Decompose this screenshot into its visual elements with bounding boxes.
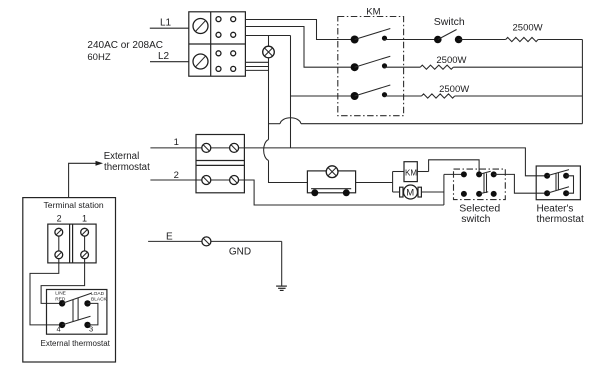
wire row2 to right bus <box>453 66 582 68</box>
wire 1 input <box>150 147 206 149</box>
wire branch C vertical down to node <box>290 36 292 149</box>
svg-text:2500W: 2500W <box>439 84 469 95</box>
label 2500W row1 <box>513 23 543 34</box>
wire coil to selected switch feed <box>429 160 480 175</box>
lamp block box <box>307 171 355 193</box>
wire L2 rail lower segment <box>269 161 308 183</box>
label station 1 <box>82 214 87 224</box>
svg-text:switch: switch <box>461 213 490 225</box>
label LINE RED <box>55 291 66 303</box>
arrow to External thermostat label <box>69 161 103 198</box>
label L1 <box>160 18 172 29</box>
svg-text:2: 2 <box>174 170 179 181</box>
wire L2 input <box>150 61 189 63</box>
svg-text:LINE: LINE <box>55 291 66 297</box>
wire L1 branch C horizontal <box>245 35 290 37</box>
svg-text:1: 1 <box>174 137 179 148</box>
label Switch <box>434 16 465 28</box>
label GND <box>229 247 251 258</box>
wire lamp vertical L2 rail <box>268 58 270 140</box>
wire E ground line <box>148 240 282 242</box>
wire bundle L2 to lamp line <box>245 62 268 70</box>
label 240AC or 208AC 60HZ <box>87 40 163 63</box>
KM contact row2 <box>351 56 421 71</box>
external thermostat switch box <box>47 290 107 335</box>
power terminal block TB1 <box>189 12 246 76</box>
station screws column 2 <box>55 228 63 258</box>
KM contact row1 <box>351 29 438 44</box>
selected switch box <box>454 169 506 200</box>
motor M1 <box>393 185 444 199</box>
label wire 1 <box>174 137 179 148</box>
label 2500W row2 <box>436 55 466 66</box>
label 2500W row3 <box>439 84 469 95</box>
wire row2 down to bottom control line <box>239 180 444 205</box>
lamp DS2 <box>326 166 338 178</box>
thermostat terminal block TB2 <box>196 135 244 193</box>
screw terminal L1 <box>193 19 208 34</box>
svg-text:thermostat: thermostat <box>104 162 150 173</box>
label pin 3 <box>89 325 93 334</box>
svg-text:L1: L1 <box>160 18 172 29</box>
wire station col2 to thermostat pin4 <box>30 259 62 325</box>
svg-text:4: 4 <box>57 325 61 334</box>
svg-text:M: M <box>406 188 414 199</box>
svg-text:1: 1 <box>82 214 87 224</box>
label station 2 <box>57 214 62 224</box>
svg-text:2500W: 2500W <box>513 23 543 34</box>
wire heater return left segment <box>301 123 582 125</box>
indicator lamp DS1 <box>263 36 275 58</box>
label pin 4 <box>57 325 61 334</box>
svg-text:60HZ: 60HZ <box>87 52 110 63</box>
label Selected switch <box>459 202 500 225</box>
svg-text:2: 2 <box>57 214 62 224</box>
svg-text:Terminal station: Terminal station <box>44 200 104 210</box>
TB2 row2 screws <box>202 176 239 185</box>
wire hop over branch C <box>280 118 301 124</box>
ground symbol <box>276 286 287 290</box>
svg-text:External: External <box>104 151 140 162</box>
wire station col1 to thermostat line pin <box>41 259 85 304</box>
screw terminal E <box>202 237 211 246</box>
KM contact row3 <box>351 85 422 100</box>
switch S1 <box>434 30 506 44</box>
resistor heater row3 2500W <box>422 94 455 98</box>
label wire 2 <box>174 170 179 181</box>
svg-text:LOAD: LOAD <box>91 291 105 297</box>
heater thermostat contacts <box>544 170 573 197</box>
node coil branch vertical <box>392 172 394 193</box>
screw terminal L2 <box>193 54 208 69</box>
contact bar in lamp block <box>311 189 351 197</box>
wire L1 to KM contact row2 <box>245 27 354 68</box>
wire heater return to L2 rail <box>269 123 281 125</box>
label External thermostat pointer text <box>104 151 150 173</box>
svg-text:Switch: Switch <box>434 16 465 28</box>
resistor heater row1 2500W <box>506 37 538 41</box>
wire L1 to KM contact row1 <box>245 20 354 40</box>
svg-text:thermostat: thermostat <box>537 214 584 225</box>
wire right bus vertical <box>581 40 583 124</box>
wire 2 input <box>150 179 206 181</box>
contactor KM box <box>338 17 404 116</box>
svg-text:L2: L2 <box>158 51 170 62</box>
external thermostat contacts <box>59 293 98 328</box>
wire lamp block to coil node <box>356 182 393 184</box>
wire L1 input <box>150 27 189 29</box>
svg-text:KM: KM <box>366 7 380 18</box>
resistor heater row2 2500W <box>420 65 453 69</box>
wire hop over thermostat line <box>264 140 269 161</box>
wire bottom line up to selected switch <box>444 174 464 205</box>
terminal pin holes L2 section <box>216 51 236 72</box>
wire row3 to right bus <box>455 95 583 97</box>
svg-text:KM: KM <box>405 168 417 177</box>
svg-text:GND: GND <box>229 247 251 258</box>
wire row1 to right bus <box>538 39 582 41</box>
station screws column 1 <box>81 228 89 258</box>
TB2 row1 screws <box>202 143 239 152</box>
wire branch to KM contact row3 <box>291 95 355 97</box>
label Heaters thermostat <box>537 203 584 225</box>
terminal pin holes L1 section <box>216 17 236 38</box>
svg-text:3: 3 <box>89 325 93 334</box>
label E <box>166 232 173 243</box>
svg-text:Heater's: Heater's <box>537 203 574 214</box>
terminal station outer box <box>23 198 116 362</box>
label KM <box>366 7 380 18</box>
label Terminal station <box>44 200 104 210</box>
svg-text:2500W: 2500W <box>436 55 466 66</box>
wire selected switch to heater thermostat <box>494 174 547 193</box>
svg-text:BLACK: BLACK <box>91 297 108 303</box>
selected switch contacts <box>461 171 497 197</box>
label External thermostat bottom <box>41 339 111 348</box>
heater thermostat box <box>536 166 580 200</box>
label LOAD BLACK <box>91 291 108 303</box>
svg-text:External thermostat: External thermostat <box>41 339 111 348</box>
label L2 <box>158 51 170 62</box>
wire control line row1 to heater thermostat <box>239 148 547 176</box>
coil KM U1 <box>393 162 429 182</box>
wire down to ground <box>281 241 283 286</box>
station terminal block <box>48 224 96 263</box>
svg-text:240AC or 208AC: 240AC or 208AC <box>87 40 163 51</box>
